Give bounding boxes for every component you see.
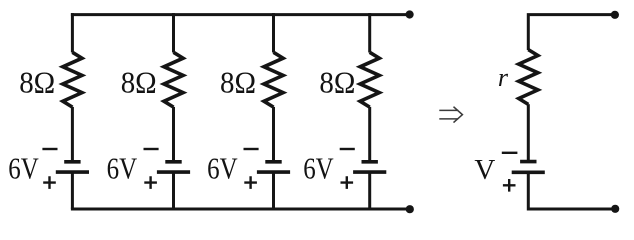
wire: branch 1 middle lead bbox=[71, 107, 74, 162]
resistor R3 (8Ω) zigzag bbox=[264, 52, 283, 107]
battery B3 positive plate (long bar) bbox=[257, 170, 290, 174]
wire: top rail of parallel circuit bbox=[71, 13, 410, 16]
wire: branch 3 middle lead bbox=[272, 107, 275, 162]
svg-text:6V: 6V bbox=[303, 151, 334, 186]
minus sign of battery B1 bbox=[42, 148, 57, 150]
svg-text:V: V bbox=[474, 154, 495, 186]
svg-text:r: r bbox=[498, 63, 509, 92]
wire: branch 3 bottom lead bbox=[272, 172, 275, 209]
plus sign of battery V bbox=[503, 179, 516, 192]
plus sign of battery B3 bbox=[244, 176, 257, 189]
svg-text:6V: 6V bbox=[8, 151, 39, 186]
plus sign of battery B2 bbox=[144, 176, 157, 189]
plus sign of battery B1 bbox=[43, 176, 56, 189]
wire: branch 4 bottom lead bbox=[368, 172, 371, 209]
svg-text:6V: 6V bbox=[207, 151, 238, 186]
wire: branch 2 middle lead bbox=[172, 107, 175, 162]
battery B3 negative plate (short bar) bbox=[265, 160, 281, 164]
resistor r zigzag bbox=[519, 50, 538, 105]
wire: branch 3 top lead bbox=[272, 13, 275, 52]
wire: branch 1 top lead bbox=[71, 13, 74, 52]
battery V negative plate (short bar) bbox=[520, 160, 536, 164]
node: equivalent circuit bottom terminal dot bbox=[611, 205, 619, 213]
battery B4 negative plate (short bar) bbox=[362, 160, 378, 164]
battery V positive plate (long bar) bbox=[512, 171, 545, 175]
minus sign of battery V bbox=[502, 152, 518, 154]
battery B4 positive plate (long bar) bbox=[353, 170, 386, 174]
implies arrow ⇒ bbox=[439, 107, 462, 123]
battery B2 negative plate (short bar) bbox=[165, 160, 181, 164]
svg-text:8Ω: 8Ω bbox=[121, 65, 157, 100]
node: left circuit top terminal dot bbox=[406, 10, 414, 18]
wire: equivalent branch bottom lead and bottom rail bbox=[527, 172, 615, 209]
node: equivalent circuit top terminal dot bbox=[611, 11, 619, 19]
wire: branch 4 top lead bbox=[368, 13, 371, 52]
minus sign of battery B4 bbox=[340, 148, 355, 150]
wire: branch 1 bottom lead bbox=[71, 172, 74, 209]
wire: bottom rail of parallel circuit bbox=[71, 208, 410, 211]
battery B1 positive plate (long bar) bbox=[56, 170, 89, 174]
wire: equivalent circuit top rail bbox=[527, 13, 615, 50]
wire: equivalent branch middle lead bbox=[527, 104, 530, 161]
resistor R1 (8Ω) zigzag bbox=[63, 52, 82, 107]
plus sign of battery B4 bbox=[341, 176, 354, 189]
svg-text:8Ω: 8Ω bbox=[220, 65, 256, 100]
svg-text:8Ω: 8Ω bbox=[319, 65, 355, 100]
resistor R2 (8Ω) zigzag bbox=[164, 52, 183, 107]
minus sign of battery B2 bbox=[144, 148, 159, 150]
minus sign of battery B3 bbox=[244, 148, 259, 150]
resistor R4 (8Ω) zigzag bbox=[360, 52, 379, 107]
wire: branch 2 bottom lead bbox=[172, 172, 175, 209]
wire: branch 4 middle lead bbox=[368, 107, 371, 162]
svg-text:8Ω: 8Ω bbox=[19, 65, 55, 100]
svg-text:6V: 6V bbox=[107, 151, 138, 186]
battery B2 positive plate (long bar) bbox=[157, 170, 190, 174]
node: left circuit bottom terminal dot bbox=[406, 205, 414, 213]
battery B1 negative plate (short bar) bbox=[64, 160, 80, 164]
wire: branch 2 top lead bbox=[172, 13, 175, 52]
